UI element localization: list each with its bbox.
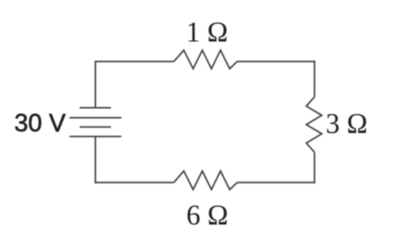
battery 30 V : upper long plate (70, 117, 122, 119)
resistor 3 Ω (right) (306, 97, 322, 152)
resistor 1 Ω (top) (174, 50, 237, 68)
svg-text:3 Ω: 3 Ω (326, 109, 368, 140)
wire: battery top plate up to top-left corner (94, 62, 96, 108)
battery 30 V : lower short plate (80, 126, 111, 128)
wire: bottom-left corner up to battery bottom plate (94, 137, 96, 184)
svg-text:1 Ω: 1 Ω (186, 17, 228, 48)
wire: top rail, left segment (95, 61, 174, 63)
wire: right side, bottom segment (314, 152, 316, 183)
wire: right side, top segment (314, 61, 316, 97)
battery 30 V : top short plate (80, 107, 111, 109)
resistor 6 Ω (bottom) (174, 171, 237, 190)
svg-text:30 V: 30 V (14, 110, 66, 138)
wire: bottom rail, left segment (95, 182, 174, 184)
wire: top rail, right segment (237, 61, 315, 63)
battery 30 V : bottom long plate (70, 136, 122, 138)
svg-text:6 Ω: 6 Ω (186, 200, 228, 231)
wire: bottom rail, right segment (237, 182, 315, 184)
